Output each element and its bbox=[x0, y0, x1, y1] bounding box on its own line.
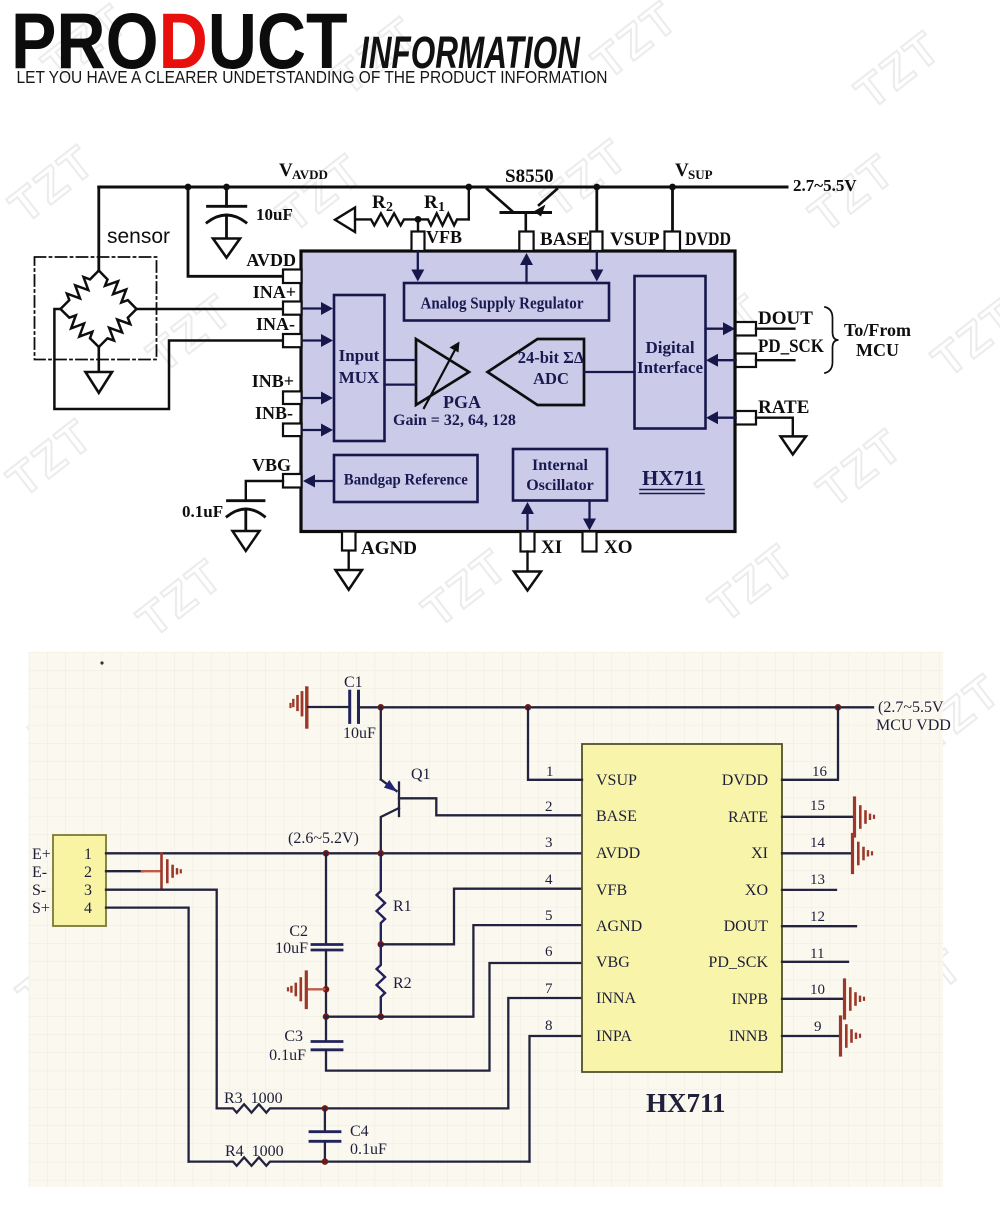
ground XI bbox=[514, 572, 541, 591]
svg-text:PGA: PGA bbox=[443, 392, 481, 412]
svg-text:DVDD: DVDD bbox=[722, 772, 768, 789]
svg-text:Gain = 32, 64, 128: Gain = 32, 64, 128 bbox=[393, 412, 516, 429]
wire ground to C1 bbox=[308, 706, 348, 708]
svg-text:XI: XI bbox=[541, 537, 562, 558]
pin INA+ bbox=[283, 302, 302, 315]
connector pin numbers bbox=[84, 846, 92, 917]
svg-text:INPA: INPA bbox=[596, 1028, 632, 1045]
svg-text:S8550: S8550 bbox=[505, 166, 554, 187]
ground XI pin14 bbox=[853, 835, 873, 873]
HEADER bbox=[11, 0, 608, 87]
block Digital Interface bbox=[635, 276, 706, 429]
svg-text:AGND: AGND bbox=[596, 918, 642, 935]
svg-text:TZT: TZT bbox=[412, 538, 518, 636]
label HX711 chip bbox=[640, 466, 704, 494]
svg-text:E-: E- bbox=[32, 864, 47, 881]
svg-text:PD_SCK: PD_SCK bbox=[758, 336, 824, 357]
label 2.7-5.5V bbox=[793, 176, 857, 195]
node junction VFB bbox=[415, 216, 422, 223]
svg-text:TZT: TZT bbox=[807, 418, 913, 516]
block Input MUX bbox=[334, 295, 385, 441]
svg-text:9: 9 bbox=[814, 1019, 822, 1035]
svg-text:V: V bbox=[279, 160, 293, 181]
svg-text:VSUP: VSUP bbox=[596, 772, 637, 789]
svg-text:5: 5 bbox=[545, 908, 553, 924]
arrow PD_SCK in bbox=[706, 354, 736, 367]
svg-text:2.7~5.5V: 2.7~5.5V bbox=[793, 176, 857, 195]
svg-text:INA-: INA- bbox=[256, 314, 295, 334]
label 10uF bbox=[256, 205, 293, 224]
wire INA+ bbox=[137, 308, 284, 311]
svg-text:VFB: VFB bbox=[596, 882, 627, 899]
svg-text:SUP: SUP bbox=[688, 167, 713, 182]
label R1 bbox=[393, 898, 412, 915]
svg-text:TZT: TZT bbox=[0, 134, 105, 232]
svg-text:AVDD: AVDD bbox=[596, 845, 640, 862]
node C2 ground bbox=[323, 986, 330, 993]
svg-text:C1: C1 bbox=[344, 674, 363, 691]
pin numbers left bbox=[545, 764, 554, 1034]
svg-text:TZT: TZT bbox=[267, 143, 373, 241]
pin 13 wire XO bbox=[782, 889, 836, 891]
node R4-C4 bbox=[322, 1158, 329, 1165]
wire VFB pin drop bbox=[417, 219, 419, 231]
arrow RATE in bbox=[706, 411, 736, 424]
svg-text:R2: R2 bbox=[393, 975, 412, 992]
resistor R1 bbox=[377, 854, 385, 945]
capacitor 10uF bbox=[207, 187, 246, 238]
label C1 bbox=[344, 674, 363, 691]
label R1 bbox=[424, 192, 445, 215]
svg-text:R: R bbox=[424, 192, 438, 213]
label R2 bbox=[372, 192, 393, 215]
pin 12 wire DOUT bbox=[782, 925, 856, 927]
resistor R3 bbox=[217, 1104, 509, 1112]
svg-text:DVDD: DVDD bbox=[685, 229, 731, 250]
svg-text:MCU VDD: MCU VDD bbox=[876, 717, 951, 734]
svg-text:(2.7~5.5V: (2.7~5.5V bbox=[878, 699, 944, 716]
svg-text:TZT: TZT bbox=[127, 548, 233, 646]
svg-text:6: 6 bbox=[545, 944, 553, 960]
wire VBG route bbox=[326, 963, 582, 1071]
node rail-VSUP bbox=[525, 704, 532, 711]
block Analog Supply Regulator bbox=[404, 283, 609, 321]
label Q1 bbox=[411, 766, 431, 783]
svg-text:S-: S- bbox=[32, 882, 46, 899]
node R2 bottom bbox=[378, 1013, 385, 1020]
pin labels left bbox=[246, 250, 296, 475]
svg-text:15: 15 bbox=[810, 798, 825, 814]
svg-text:0.1uF: 0.1uF bbox=[182, 502, 223, 521]
svg-text:4: 4 bbox=[84, 900, 92, 917]
pin VFB bbox=[412, 232, 425, 252]
svg-text:0.1uF: 0.1uF bbox=[269, 1047, 306, 1064]
connector labels bbox=[32, 846, 51, 917]
transistor arrow bbox=[534, 205, 546, 217]
svg-text:C3: C3 bbox=[284, 1028, 303, 1045]
resistor R2 bbox=[355, 213, 418, 225]
svg-text:16: 16 bbox=[812, 764, 828, 780]
Q1 emitter arrow bbox=[384, 780, 397, 792]
node junction DVDD bbox=[669, 184, 676, 191]
ground INNB pin9 bbox=[841, 1017, 861, 1055]
node rail-Q1c bbox=[378, 850, 385, 857]
svg-text:MCU: MCU bbox=[856, 340, 899, 360]
svg-text:1: 1 bbox=[438, 200, 445, 215]
label C1 value bbox=[343, 725, 376, 742]
svg-text:R: R bbox=[372, 192, 386, 213]
svg-text:VSUP: VSUP bbox=[610, 229, 660, 250]
title INFORMATION bbox=[360, 29, 581, 79]
wire R1 to rail bbox=[465, 184, 472, 220]
svg-text:24-bit ΣΔ: 24-bit ΣΔ bbox=[518, 348, 585, 367]
svg-text:1: 1 bbox=[546, 764, 554, 780]
svg-text:INNA: INNA bbox=[596, 990, 636, 1007]
sensor dash-dot box bbox=[35, 257, 157, 360]
pin labels right bbox=[758, 308, 824, 418]
svg-text:INB-: INB- bbox=[255, 403, 293, 423]
svg-text:TZT: TZT bbox=[922, 288, 1000, 386]
svg-text:AGND: AGND bbox=[361, 538, 417, 559]
label Gain bbox=[393, 412, 516, 429]
svg-text:13: 13 bbox=[810, 872, 825, 888]
svg-text:14: 14 bbox=[810, 835, 826, 851]
label HX711 bbox=[646, 1088, 726, 1118]
ground AGND bbox=[336, 570, 363, 590]
pin VBG bbox=[283, 474, 302, 488]
pin 1 wire VSUP bbox=[528, 707, 582, 780]
svg-text:MUX: MUX bbox=[339, 368, 380, 387]
chip HX711 IC bbox=[582, 744, 782, 1072]
svg-text:VBG: VBG bbox=[596, 954, 630, 971]
svg-text:4: 4 bbox=[545, 872, 553, 888]
svg-text:sensor: sensor bbox=[107, 225, 170, 248]
svg-text:INA+: INA+ bbox=[253, 282, 296, 302]
svg-text:Internal: Internal bbox=[532, 457, 589, 474]
wire INA- loop bbox=[54, 309, 283, 409]
svg-text:To/From: To/From bbox=[844, 320, 911, 340]
arrow DOUT out bbox=[706, 322, 735, 335]
pin AGND bbox=[342, 532, 356, 551]
svg-text:12: 12 bbox=[810, 909, 825, 925]
svg-text:Q1: Q1 bbox=[411, 766, 431, 783]
pin labels top bbox=[540, 229, 731, 250]
svg-text:2: 2 bbox=[386, 200, 393, 215]
arrow INB- bbox=[302, 424, 333, 437]
wire AGND to ground bbox=[348, 551, 350, 570]
arrow INB+ bbox=[302, 392, 333, 405]
label C3 bbox=[269, 1028, 306, 1064]
wire MUX-PGA lower bbox=[385, 383, 417, 385]
label R2 bbox=[393, 975, 412, 992]
speck artifact bbox=[100, 661, 103, 664]
arrow BASE up bbox=[520, 253, 533, 283]
pin XI bbox=[521, 532, 535, 552]
ground C2 bbox=[288, 972, 324, 1008]
wire C2 to junction bbox=[325, 950, 327, 1017]
node junction AVDD bbox=[185, 184, 192, 191]
wire XI to ground bbox=[526, 552, 528, 572]
label sensor bbox=[107, 225, 170, 248]
node rail-DVDD bbox=[835, 704, 842, 711]
wire E- stub bbox=[106, 870, 143, 872]
ground bridge bbox=[86, 372, 113, 393]
svg-text:R1: R1 bbox=[393, 898, 412, 915]
title PRODUCT bbox=[11, 0, 608, 87]
svg-text:11: 11 bbox=[810, 946, 824, 962]
open arrow left bbox=[335, 208, 355, 233]
svg-text:XI: XI bbox=[751, 845, 768, 862]
svg-text:Digital: Digital bbox=[645, 338, 694, 357]
brace MCU bbox=[825, 307, 839, 373]
pin BASE bbox=[519, 232, 533, 252]
chip pin names right bbox=[708, 772, 768, 1045]
ground E- bbox=[142, 854, 181, 890]
wire C2 branch bbox=[325, 853, 327, 944]
svg-text:C2: C2 bbox=[289, 923, 308, 940]
wire VBG to cap bbox=[246, 481, 283, 500]
wire S- vertical bbox=[106, 890, 217, 1109]
ground C1 (power rail left) bbox=[291, 688, 307, 727]
ground RATE pin15 bbox=[855, 798, 875, 836]
svg-text:INNB: INNB bbox=[729, 1028, 768, 1045]
arrow INA+ bbox=[302, 302, 333, 315]
wire AVDD to pin bbox=[188, 187, 283, 276]
wire RATE to ground bbox=[756, 418, 793, 436]
svg-text:10uF: 10uF bbox=[343, 725, 376, 742]
svg-text:DOUT: DOUT bbox=[724, 918, 769, 935]
wire VFB route bbox=[381, 889, 582, 945]
ground RATE bbox=[781, 436, 807, 454]
pin PD_SCK bbox=[736, 354, 756, 368]
label 0.1uF bbox=[182, 502, 223, 521]
svg-text:2: 2 bbox=[84, 864, 92, 881]
capacitor 0.1uF bbox=[227, 501, 265, 531]
resistor R1 bbox=[418, 213, 469, 225]
pin INB- bbox=[283, 424, 302, 437]
svg-text:V: V bbox=[675, 160, 689, 181]
svg-text:8: 8 bbox=[545, 1018, 553, 1034]
svg-text:Oscillator: Oscillator bbox=[526, 477, 594, 494]
svg-text:0.1uF: 0.1uF bbox=[350, 1141, 387, 1158]
svg-text:S+: S+ bbox=[32, 900, 50, 917]
resistor R2 bbox=[377, 944, 385, 1016]
svg-text:10uF: 10uF bbox=[256, 205, 293, 224]
pin DVDD bbox=[665, 232, 681, 252]
pin 14 wire XI bbox=[782, 852, 852, 854]
arrow VFB down bbox=[411, 251, 424, 282]
svg-text:HX711: HX711 bbox=[646, 1088, 726, 1118]
wire INNA route bbox=[508, 998, 582, 1108]
capacitor C3 bbox=[312, 1042, 342, 1050]
wire VAVDD rail bbox=[99, 186, 787, 189]
node junction cap10uF bbox=[223, 184, 230, 191]
svg-text:R3 1000: R3 1000 bbox=[224, 1090, 283, 1107]
label C2 bbox=[275, 923, 308, 957]
label S8550 bbox=[505, 166, 554, 187]
wire E+ rail bbox=[106, 852, 582, 854]
svg-text:AVDD: AVDD bbox=[246, 250, 296, 270]
transistor Q1 bbox=[381, 707, 582, 853]
wire sensor top bbox=[97, 187, 100, 271]
svg-text:Bandgap Reference: Bandgap Reference bbox=[344, 472, 468, 489]
svg-text:R4 1000: R4 1000 bbox=[225, 1143, 284, 1160]
node AGND junction bbox=[323, 1013, 330, 1020]
svg-text:1: 1 bbox=[84, 846, 92, 863]
label R4 bbox=[225, 1143, 284, 1160]
svg-text:TZT: TZT bbox=[137, 283, 243, 381]
arrow VSUP down bbox=[590, 251, 603, 282]
transistor S8550 bbox=[487, 189, 557, 232]
svg-text:E+: E+ bbox=[32, 846, 51, 863]
BOTTOMDIAG bbox=[29, 652, 951, 1187]
pin 10 wire INPB bbox=[782, 998, 844, 1000]
svg-text:10: 10 bbox=[810, 982, 825, 998]
label C4 bbox=[350, 1123, 387, 1158]
connector box bbox=[53, 835, 106, 926]
pin 15 wire RATE bbox=[782, 816, 854, 818]
svg-text:XO: XO bbox=[604, 537, 633, 558]
node VAVDD label bbox=[279, 160, 328, 182]
svg-text:PD_SCK: PD_SCK bbox=[708, 954, 768, 971]
pin 16 wire DVDD bbox=[782, 707, 838, 780]
svg-text:7: 7 bbox=[545, 981, 553, 997]
svg-text:VFB: VFB bbox=[426, 227, 462, 247]
wire ADC-DI bbox=[584, 371, 635, 373]
chip pin names left bbox=[596, 772, 642, 1045]
svg-text:10uF: 10uF bbox=[275, 940, 308, 957]
label To/From MCU bbox=[844, 320, 911, 360]
block Bandgap Reference bbox=[334, 455, 478, 502]
svg-text:VBG: VBG bbox=[252, 455, 291, 475]
resistor bridge bbox=[61, 271, 137, 348]
wire DVDD pin drop bbox=[671, 187, 674, 232]
TOPDIAG bbox=[35, 160, 912, 591]
svg-text:(2.6~5.2V): (2.6~5.2V) bbox=[288, 830, 359, 847]
svg-text:INB+: INB+ bbox=[252, 371, 294, 391]
wire MUX-PGA upper bbox=[385, 359, 417, 361]
arrow XI up bbox=[521, 502, 534, 532]
wire VSUP pin drop bbox=[595, 187, 598, 232]
svg-text:ADC: ADC bbox=[533, 369, 569, 388]
op-amp PGA bbox=[416, 339, 469, 405]
node rail-Q1 bbox=[378, 704, 385, 711]
svg-text:Input: Input bbox=[339, 346, 380, 365]
label R3 bbox=[224, 1090, 283, 1107]
svg-text:2: 2 bbox=[545, 799, 553, 815]
arrow VBG out bbox=[303, 475, 334, 488]
block Internal Oscillator bbox=[513, 449, 607, 501]
pin DOUT bbox=[736, 322, 756, 336]
schematic sheet background bbox=[29, 652, 944, 1187]
svg-text:TZT: TZT bbox=[0, 408, 103, 506]
wire INPA route bbox=[530, 1036, 583, 1162]
wire S+ vertical bbox=[106, 908, 189, 1162]
pin INB+ bbox=[283, 391, 302, 404]
wire bridge bottom to ground bbox=[98, 347, 101, 372]
pin numbers right bbox=[810, 764, 828, 1035]
chip HX711 body bbox=[301, 251, 735, 532]
pin VSUP bbox=[590, 232, 602, 252]
label 2.7-5.5V MCU bbox=[876, 699, 951, 734]
pin 11 wire PD_SCK bbox=[782, 961, 848, 963]
svg-text:XO: XO bbox=[745, 882, 768, 899]
wire DOUT bbox=[756, 328, 794, 330]
capacitor C2 bbox=[312, 945, 342, 951]
pin INA- bbox=[283, 334, 302, 347]
svg-text:RATE: RATE bbox=[728, 809, 768, 826]
label PGA bbox=[443, 392, 481, 412]
svg-text:RATE: RATE bbox=[758, 397, 809, 418]
svg-text:AVDD: AVDD bbox=[292, 167, 328, 182]
node R3-C4 bbox=[322, 1105, 329, 1112]
svg-text:Analog Supply Regulator: Analog Supply Regulator bbox=[421, 294, 584, 313]
wire C3 top bbox=[325, 1017, 327, 1041]
svg-text:TZT: TZT bbox=[845, 20, 951, 118]
capacitor C4 bbox=[310, 1108, 340, 1161]
label VFB bbox=[426, 227, 462, 247]
arrow XO down bbox=[583, 501, 596, 531]
ground cap10uF bbox=[213, 239, 240, 258]
svg-text:BASE: BASE bbox=[596, 808, 637, 825]
wire AGND route bbox=[326, 925, 582, 1017]
ground INPB pin10 bbox=[845, 980, 865, 1018]
label 2.6-5.2V bbox=[288, 830, 359, 847]
resistor R4 bbox=[189, 1157, 530, 1165]
pin RATE bbox=[736, 411, 756, 425]
block ADC bbox=[488, 339, 585, 405]
ground 0.1uF bbox=[233, 531, 260, 551]
arrow INA- bbox=[302, 334, 333, 347]
pin AVDD bbox=[283, 270, 302, 284]
svg-text:TZT: TZT bbox=[699, 533, 805, 631]
wire power rail bbox=[359, 706, 874, 708]
node VSUP label bbox=[675, 160, 713, 182]
pin 9 wire INNB bbox=[782, 1035, 840, 1037]
svg-text:BASE: BASE bbox=[540, 229, 590, 250]
svg-text:INPB: INPB bbox=[732, 991, 768, 1008]
svg-text:C4: C4 bbox=[350, 1123, 369, 1140]
label AGND XI XO bbox=[361, 537, 633, 559]
svg-text:3: 3 bbox=[545, 835, 553, 851]
svg-text:DOUT: DOUT bbox=[758, 308, 813, 329]
pin XO bbox=[583, 532, 597, 552]
wire PD_SCK bbox=[756, 359, 794, 361]
PGA gain arrow bbox=[424, 342, 460, 409]
svg-text:LET YOU HAVE A CLEARER UNDETST: LET YOU HAVE A CLEARER UNDETSTANDING OF … bbox=[17, 67, 608, 87]
node junction VSUP bbox=[593, 184, 600, 191]
svg-text:Interface: Interface bbox=[637, 358, 704, 377]
capacitor C1 bbox=[350, 691, 359, 722]
svg-text:HX711: HX711 bbox=[642, 466, 704, 490]
node rail-C2 bbox=[323, 850, 330, 857]
svg-text:3: 3 bbox=[84, 882, 92, 899]
node R1-R2-VFB bbox=[378, 941, 385, 948]
